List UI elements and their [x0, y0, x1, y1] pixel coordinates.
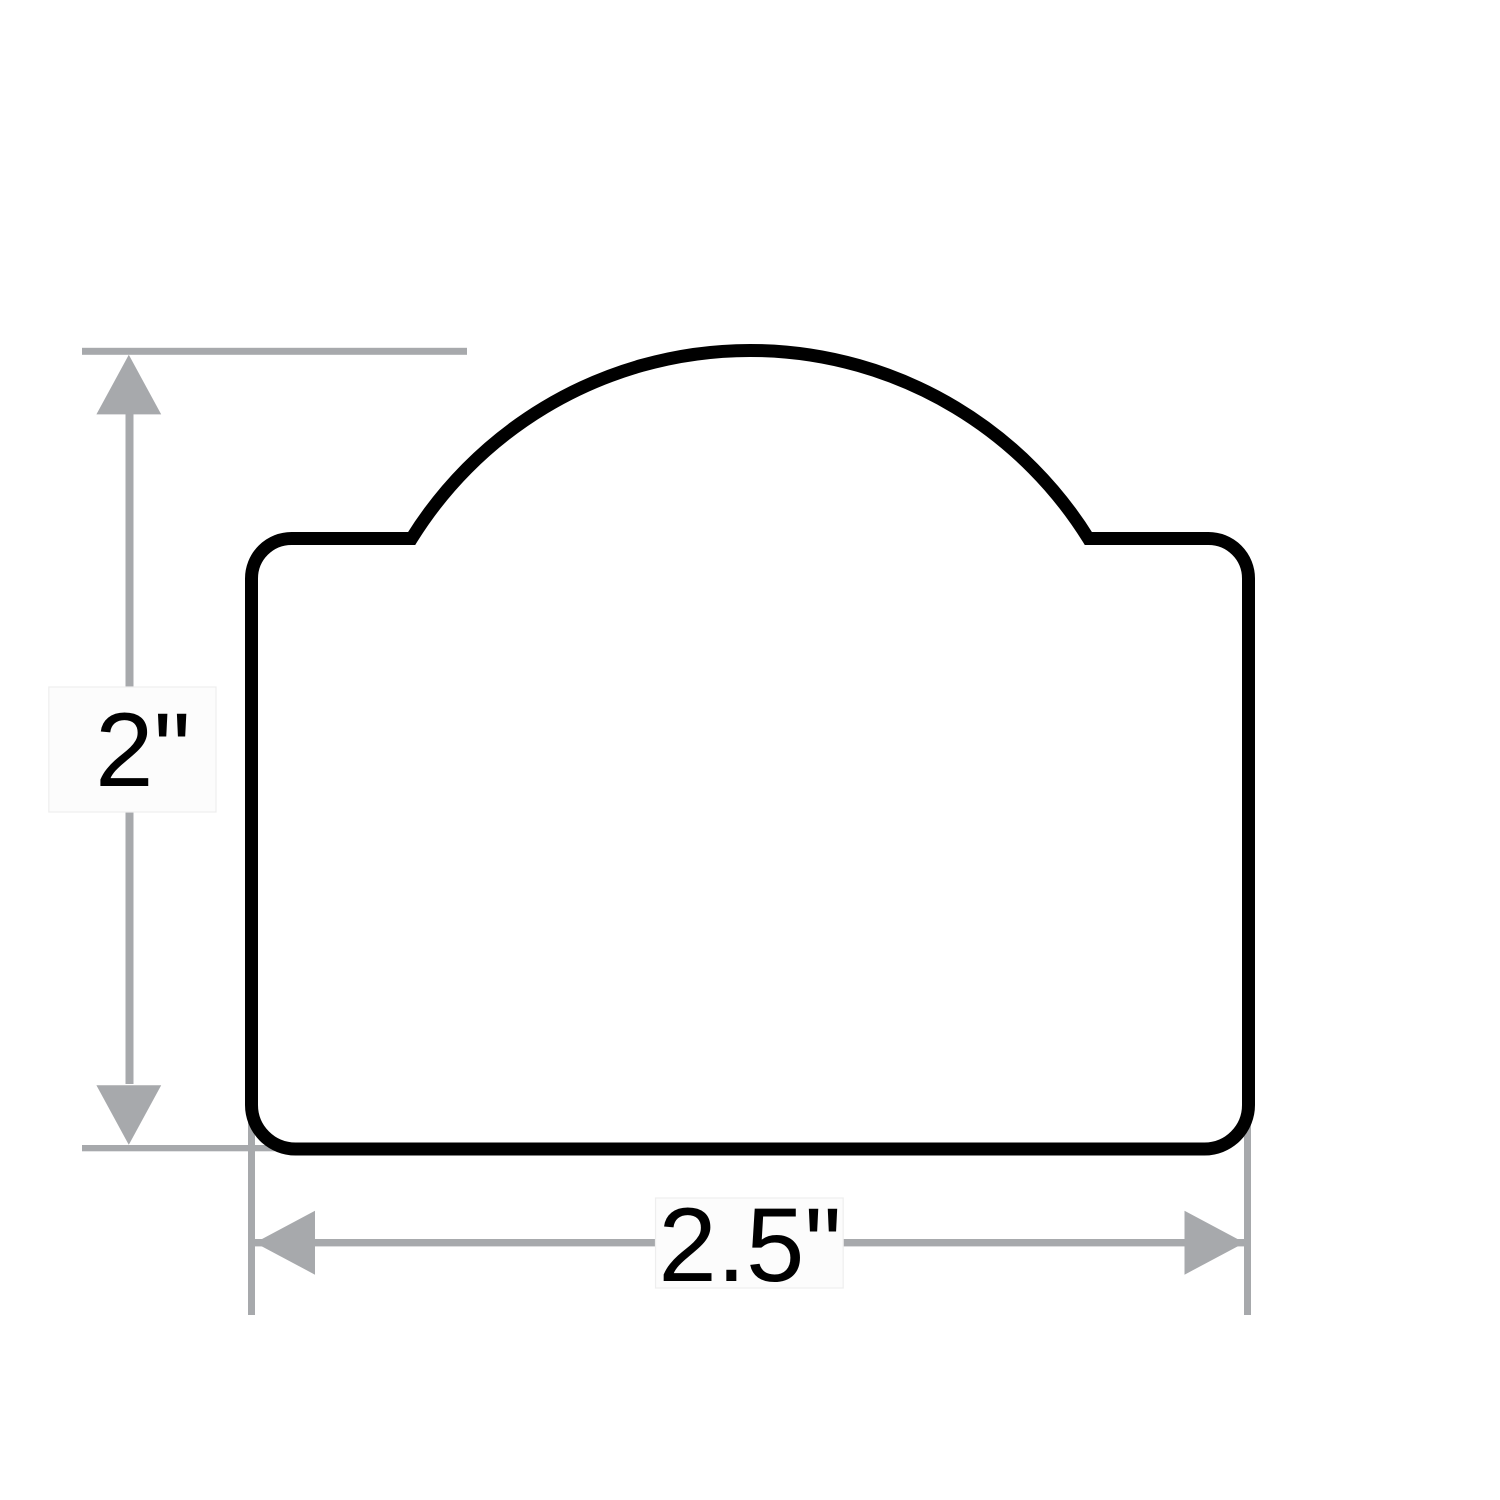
right extension line (width datum) [1244, 1105, 1251, 1315]
moulding profile outline [252, 350, 1249, 1149]
bottom-left extension line (height datum) [82, 1145, 300, 1151]
right arrowhead [1185, 1211, 1245, 1275]
width label box [656, 1198, 844, 1288]
height label box [49, 687, 216, 812]
left arrowhead [255, 1211, 315, 1275]
vertical dimension shaft (upper segment) [126, 414, 134, 688]
svg-text:2.5": 2.5" [658, 1187, 841, 1304]
down arrowhead [96, 1085, 161, 1145]
up arrowhead [96, 355, 161, 415]
svg-text:2": 2" [95, 692, 191, 809]
horizontal dimension line [255, 1239, 1245, 1246]
left extension line (width datum) [248, 1105, 255, 1315]
top extension line (height datum) [82, 348, 467, 355]
vertical dimension shaft (lower segment) [126, 812, 134, 1084]
